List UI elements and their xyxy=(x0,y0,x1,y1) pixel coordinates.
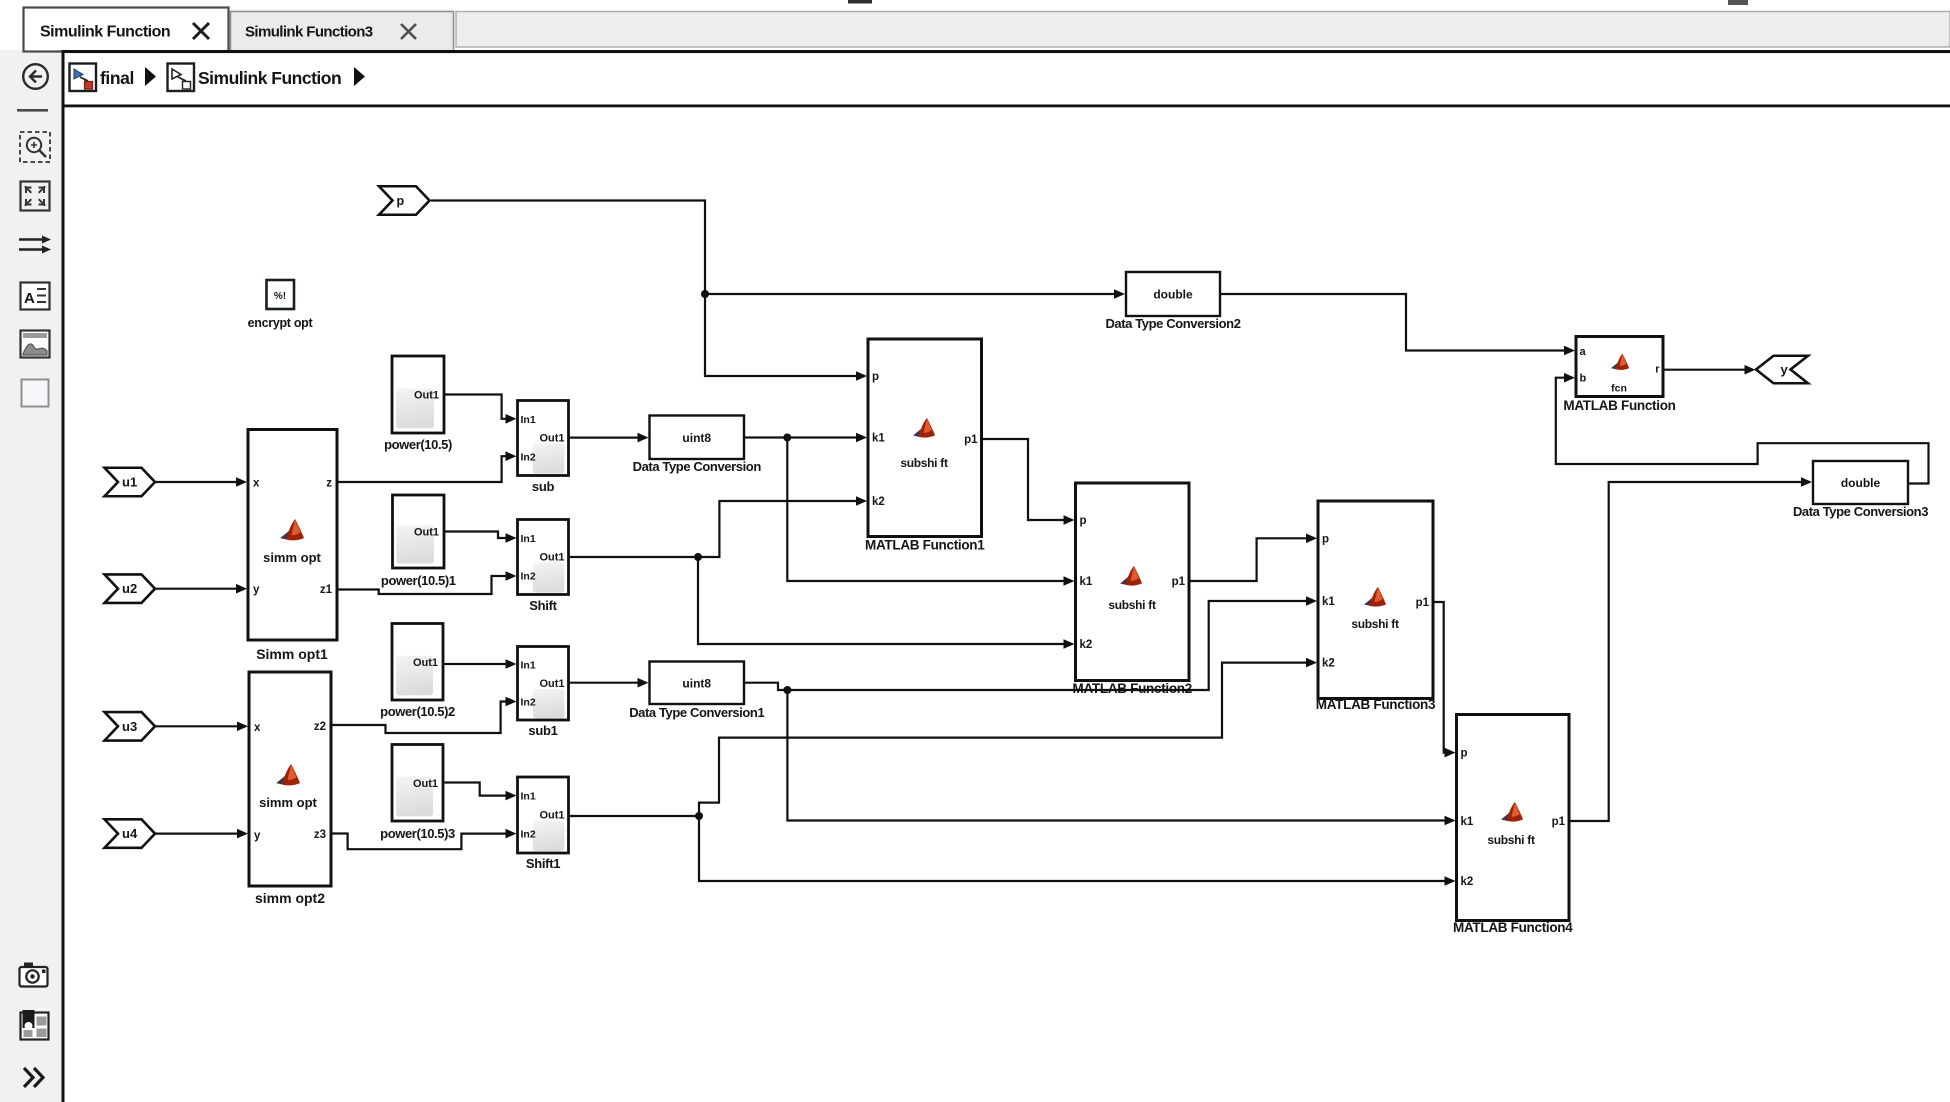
svg-text:uint8: uint8 xyxy=(682,431,711,445)
output port y xyxy=(1756,356,1808,384)
svg-text:double: double xyxy=(1153,288,1193,302)
wire branch Data Type Conversion1 to MATLAB Function4.k1 xyxy=(787,690,1449,821)
toolbar icon image preview xyxy=(21,331,50,358)
MATLAB Function block MATLAB Function2 xyxy=(1073,483,1192,696)
arrowhead into MATLAB Function1.k1 xyxy=(856,433,867,443)
toolbar icon expand chevrons xyxy=(24,1068,43,1087)
svg-text:In2: In2 xyxy=(521,570,536,582)
small artifact marks at top edge xyxy=(848,0,1748,5)
svg-text:subshi ft: subshi ft xyxy=(900,456,948,470)
svg-text:MATLAB Function: MATLAB Function xyxy=(1563,398,1675,413)
input port u1 xyxy=(105,468,156,497)
svg-text:z: z xyxy=(326,478,332,490)
junction junction on Data Type Conversion wire xyxy=(783,434,791,442)
wire Data Type Conversion to MATLAB Function1.k1 xyxy=(744,436,861,438)
wire u1 to Simm opt1.x xyxy=(155,481,241,483)
arrowhead into MATLAB Function2.k2 xyxy=(1064,639,1075,649)
breadcrumb text final xyxy=(100,68,134,88)
svg-text:k1: k1 xyxy=(1322,596,1335,608)
svg-text:power(10.5): power(10.5) xyxy=(384,437,452,452)
breadcrumb bar top border xyxy=(62,50,1950,53)
subsystem block sub1 xyxy=(518,647,569,739)
input port u2 xyxy=(105,574,156,603)
svg-text:power(10.5)3: power(10.5)3 xyxy=(380,826,455,841)
arrowhead into MATLAB Function1.p xyxy=(856,371,867,381)
breadcrumb separator arrow 2 xyxy=(354,67,365,86)
svg-text:k2: k2 xyxy=(1322,658,1335,670)
svg-text:Data Type Conversion1: Data Type Conversion1 xyxy=(629,705,764,720)
wire power(10.5)3.Out1 to Shift1.In1 xyxy=(443,783,511,796)
data type conversion block Data Type Conversion xyxy=(633,416,762,475)
wire Data Type Conversion2 to MATLAB Function.a xyxy=(1220,294,1569,351)
left toolbar background strip xyxy=(0,50,63,1102)
canvas top border xyxy=(62,105,1950,108)
subsystem block power(10.5)3 xyxy=(380,745,455,842)
svg-text:k2: k2 xyxy=(1461,876,1474,888)
svg-text:Data Type Conversion3: Data Type Conversion3 xyxy=(1793,504,1928,519)
arrowhead into Simm opt1.x xyxy=(236,477,247,487)
svg-text:Out1: Out1 xyxy=(539,552,564,564)
breadcrumb subsystem icon xyxy=(168,64,195,92)
arrowhead into MATLAB Function.a xyxy=(1564,346,1575,356)
svg-text:Data Type Conversion2: Data Type Conversion2 xyxy=(1105,316,1240,331)
svg-text:simm opt: simm opt xyxy=(259,795,317,810)
wire simm opt2.z3 to Shift1.In2 xyxy=(331,834,511,850)
arrowhead into MATLAB Function4.k2 xyxy=(1445,876,1456,886)
junction junction on p wire xyxy=(701,290,709,298)
svg-text:In2: In2 xyxy=(521,829,536,841)
svg-text:p1: p1 xyxy=(1172,576,1186,588)
arrowhead into Data Type Conversion2 xyxy=(1114,289,1125,299)
svg-text:Simulink Function3: Simulink Function3 xyxy=(245,24,373,41)
svg-text:p1: p1 xyxy=(964,434,978,446)
wire u4 to simm opt2.y xyxy=(155,832,242,834)
tab Simulink Function3 (inactive) xyxy=(231,12,454,52)
arrowhead into MATLAB Function2.k1 xyxy=(1064,576,1075,586)
svg-text:Out1: Out1 xyxy=(413,778,438,790)
junction junction on Shift.Out1 wire xyxy=(694,553,702,561)
wire Shift1.Out1 to MATLAB Function3.k2 xyxy=(569,663,1312,816)
wire Data Type Conversion3 to MATLAB Function.b xyxy=(1556,378,1929,484)
svg-text:x: x xyxy=(253,478,260,490)
wire simm opt2.z2 to sub1.In2 xyxy=(331,702,511,734)
svg-text:power(10.5)2: power(10.5)2 xyxy=(380,704,455,719)
svg-text:Out1: Out1 xyxy=(539,810,564,822)
svg-text:sub1: sub1 xyxy=(528,723,557,738)
subsystem block power(10.5)2 xyxy=(380,624,455,720)
arrowhead into Shift1.In1 xyxy=(506,791,517,801)
svg-text:double: double xyxy=(1841,476,1881,490)
svg-text:In2: In2 xyxy=(521,451,536,463)
back button xyxy=(23,64,48,89)
wire u3 to simm opt2.x xyxy=(155,725,242,727)
arrowhead into sub.In2 xyxy=(506,451,517,461)
svg-text:subshi ft: subshi ft xyxy=(1351,617,1399,631)
svg-text:uint8: uint8 xyxy=(682,676,711,690)
breadcrumb text Simulink Function xyxy=(198,68,341,88)
toolbar icon empty square xyxy=(22,380,49,407)
arrowhead into Shift.In1 xyxy=(506,533,517,543)
svg-text:A: A xyxy=(24,290,35,307)
svg-text:fcn: fcn xyxy=(1611,383,1627,395)
svg-text:Simulink Function: Simulink Function xyxy=(40,24,170,41)
svg-text:sub: sub xyxy=(532,479,555,494)
svg-text:final: final xyxy=(100,68,134,88)
svg-text:Shift1: Shift1 xyxy=(526,856,560,871)
arrowhead into MATLAB Function3.p xyxy=(1306,534,1317,544)
svg-text:Simulink Function: Simulink Function xyxy=(198,68,341,88)
wire power(10.5)2.Out1 to sub1.In1 xyxy=(443,663,508,665)
arrowhead into Data Type Conversion1 xyxy=(638,678,649,688)
svg-text:MATLAB Function4: MATLAB Function4 xyxy=(1453,920,1573,935)
svg-text:subshi ft: subshi ft xyxy=(1487,833,1535,847)
toolbar icon signal arrows xyxy=(19,236,51,254)
svg-text:y: y xyxy=(253,584,260,596)
svg-text:Simm opt1: Simm opt1 xyxy=(256,646,328,662)
breadcrumb bar xyxy=(65,53,1950,104)
wire p to MATLAB Function1.p and branch point xyxy=(431,201,861,377)
toolbar separator line xyxy=(17,109,48,112)
arrowhead into sub.In1 xyxy=(506,414,517,424)
svg-text:x: x xyxy=(254,722,261,734)
svg-text:Out1: Out1 xyxy=(414,390,439,402)
svg-text:r: r xyxy=(1655,364,1660,376)
wire power(10.5).Out1 to sub.In1 xyxy=(444,395,511,419)
canvas left border xyxy=(62,50,65,1102)
arrowhead into MATLAB Function2.p xyxy=(1064,515,1075,525)
svg-text:%!: %! xyxy=(274,291,286,302)
svg-text:p: p xyxy=(397,194,405,208)
data type conversion block Data Type Conversion3 xyxy=(1793,461,1928,519)
svg-text:u2: u2 xyxy=(122,581,137,596)
subsystem block Simm opt1 xyxy=(248,430,337,663)
svg-text:subshi ft: subshi ft xyxy=(1108,598,1156,612)
tab Simulink Function (active) xyxy=(24,8,229,52)
wire MATLAB Function4.p1 to Data Type Conversion3 xyxy=(1569,482,1806,821)
svg-text:Out1: Out1 xyxy=(413,657,438,669)
svg-text:u1: u1 xyxy=(122,475,137,490)
toolbar icon camera xyxy=(20,963,48,987)
arrowhead into MATLAB Function4.p xyxy=(1445,748,1456,758)
wire branch Shift1.Out1 to MATLAB Function4.k2 xyxy=(699,816,1450,881)
wire MATLAB Function.r to y xyxy=(1663,369,1749,371)
junction junction on Data Type Conversion1 wire xyxy=(783,686,791,694)
data type conversion block Data Type Conversion1 xyxy=(629,662,764,721)
svg-text:a: a xyxy=(1580,346,1587,358)
subsystem block Shift1 xyxy=(518,777,569,871)
MATLAB Function block MATLAB Function4 xyxy=(1453,715,1573,936)
tab strip empty background right of tabs xyxy=(456,12,1950,48)
svg-text:simm opt: simm opt xyxy=(263,550,321,565)
svg-text:u4: u4 xyxy=(122,826,138,841)
svg-text:MATLAB Function3: MATLAB Function3 xyxy=(1316,697,1436,712)
block encrypt opt xyxy=(248,280,314,330)
svg-text:p: p xyxy=(1322,533,1329,545)
wire branch Shift.Out1 to MATLAB Function2.k2 xyxy=(698,557,1069,644)
svg-text:Out1: Out1 xyxy=(414,527,439,539)
wire branch Data Type Conversion to MATLAB Function2.k1 xyxy=(787,438,1068,582)
arrowhead into simm opt2.x xyxy=(237,722,248,732)
subsystem block sub xyxy=(518,401,569,495)
junction junction on Shift1.Out1 wire xyxy=(695,812,703,820)
wire Shift.Out1 to MATLAB Function1.k2 xyxy=(569,501,862,557)
arrowhead into sub1.In2 xyxy=(506,697,517,707)
svg-text:Data Type Conversion: Data Type Conversion xyxy=(633,459,762,474)
arrowhead into simm opt2.y xyxy=(237,829,248,839)
arrowhead into Data Type Conversion3 xyxy=(1801,477,1812,487)
subsystem block simm opt2 xyxy=(249,672,331,906)
arrowhead into MATLAB Function3.k2 xyxy=(1306,658,1317,668)
arrowhead into MATLAB Function1.k2 xyxy=(856,496,867,506)
toolbar icon fit to view xyxy=(21,182,50,211)
wire MATLAB Function2.p1 to MATLAB Function3.p xyxy=(1189,538,1311,581)
svg-text:k2: k2 xyxy=(1080,639,1093,651)
svg-text:p: p xyxy=(872,371,879,383)
svg-text:y: y xyxy=(1781,362,1789,377)
svg-text:p: p xyxy=(1080,515,1087,527)
toolbar icon annotation A xyxy=(21,283,50,310)
wire MATLAB Function1.p1 to MATLAB Function2.p xyxy=(982,439,1069,520)
svg-text:encrypt opt: encrypt opt xyxy=(248,316,314,330)
wire Simm opt1.z to sub.In2 xyxy=(337,456,511,482)
svg-text:b: b xyxy=(1580,373,1587,385)
wire u2 to Simm opt1.y xyxy=(155,588,241,590)
arrowhead into y port xyxy=(1745,365,1756,375)
arrowhead into MATLAB Function3.k1 xyxy=(1306,596,1317,606)
svg-text:In1: In1 xyxy=(521,414,536,426)
wire Simm opt1.z1 to Shift.In2 xyxy=(337,576,511,594)
arrowhead into Shift.In2 xyxy=(506,571,517,581)
wire MATLAB Function3.p1 to MATLAB Function4.p xyxy=(1433,602,1450,753)
arrowhead into Simm opt1.y xyxy=(236,584,247,594)
subsystem block power(10.5)1 xyxy=(381,495,456,588)
arrowhead into MATLAB Function4.k1 xyxy=(1445,816,1456,826)
svg-text:MATLAB Function1: MATLAB Function1 xyxy=(865,538,985,553)
svg-text:In2: In2 xyxy=(521,696,536,708)
toolbar icon zoom to region xyxy=(20,132,50,162)
svg-text:Shift: Shift xyxy=(529,598,557,613)
svg-text:In1: In1 xyxy=(521,660,536,672)
svg-text:In1: In1 xyxy=(521,791,536,803)
svg-text:Out1: Out1 xyxy=(539,678,564,690)
MATLAB Function block MATLAB Function3 xyxy=(1316,501,1436,712)
subsystem block power(10.5) xyxy=(384,356,452,452)
breadcrumb separator arrow 1 xyxy=(145,67,156,86)
svg-text:In1: In1 xyxy=(521,533,536,545)
input port u4 xyxy=(105,819,156,848)
MATLAB Function block MATLAB Function xyxy=(1563,337,1675,414)
arrowhead into sub1.In1 xyxy=(506,659,517,669)
wire Data Type Conversion1 to MATLAB Function3.k1 xyxy=(744,601,1311,690)
svg-text:power(10.5)1: power(10.5)1 xyxy=(381,573,456,588)
svg-text:z1: z1 xyxy=(320,584,333,596)
wire sub1.Out1 to Data Type Conversion1 xyxy=(569,682,643,684)
svg-text:k2: k2 xyxy=(872,496,885,508)
wire power(10.5)1.Out1 to Shift.In1 xyxy=(444,532,511,539)
input port p xyxy=(379,186,430,215)
toolbar icon window layout xyxy=(21,1010,49,1040)
subsystem block Shift xyxy=(518,520,569,614)
svg-text:y: y xyxy=(254,830,261,842)
svg-text:k1: k1 xyxy=(872,433,885,445)
svg-text:p1: p1 xyxy=(1416,597,1430,609)
svg-text:z2: z2 xyxy=(314,721,326,733)
wire sub.Out1 to Data Type Conversion xyxy=(569,437,643,439)
MATLAB Function block MATLAB Function1 xyxy=(865,339,985,553)
arrowhead into Data Type Conversion xyxy=(638,433,649,443)
svg-text:simm opt2: simm opt2 xyxy=(255,890,325,906)
breadcrumb model icon final xyxy=(70,64,97,92)
arrowhead into Shift1.In2 xyxy=(506,829,517,839)
svg-text:p: p xyxy=(1461,748,1468,760)
svg-text:p1: p1 xyxy=(1552,816,1566,828)
svg-text:k1: k1 xyxy=(1461,816,1474,828)
wire branch p to Data Type Conversion2 xyxy=(705,293,1119,295)
svg-text:Out1: Out1 xyxy=(539,433,564,445)
arrowhead into MATLAB Function.b xyxy=(1564,373,1575,383)
svg-text:u3: u3 xyxy=(122,719,137,734)
input port u3 xyxy=(105,712,156,741)
svg-text:z3: z3 xyxy=(314,829,326,841)
svg-text:MATLAB Function2: MATLAB Function2 xyxy=(1073,681,1192,696)
svg-text:k1: k1 xyxy=(1080,576,1093,588)
data type conversion block Data Type Conversion2 xyxy=(1105,272,1240,331)
